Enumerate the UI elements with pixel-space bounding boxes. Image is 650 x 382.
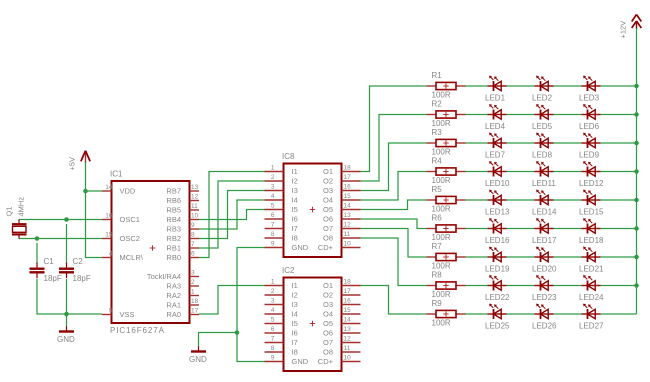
IC8 pin 9 (GND) — [265, 240, 309, 252]
svg-text:RA1: RA1 — [166, 301, 181, 310]
IC2 pin 13 (O6) — [323, 326, 361, 338]
IC8 pin 3 (I3) — [265, 183, 298, 195]
IC2 pin 10 (CD+) — [318, 354, 361, 366]
junction +12V rail row 2 — [634, 112, 639, 117]
svg-text:I7: I7 — [292, 224, 298, 233]
svg-text:O1: O1 — [323, 167, 333, 176]
wire C1 bottom to GND rail — [37, 279, 67, 314]
svg-text:LED11: LED11 — [532, 179, 556, 188]
wire RB0 to IC8 I1 — [199, 172, 265, 258]
junction +12V rail row 4 — [634, 169, 639, 174]
wire down to GND symbol 1 — [66, 314, 68, 327]
svg-text:+12V: +12V — [619, 21, 628, 39]
wire to GND symbol 2 — [199, 333, 238, 348]
svg-text:14: 14 — [344, 202, 352, 209]
svg-text:100R: 100R — [432, 176, 451, 185]
wire LED16 to LED17 — [507, 228, 535, 230]
svg-text:10: 10 — [344, 354, 352, 361]
LED LED8 — [535, 133, 554, 148]
svg-text:16: 16 — [344, 183, 352, 190]
svg-text:LED24: LED24 — [579, 293, 604, 302]
IC2 pin 14 (O5) — [323, 316, 361, 328]
svg-text:MCLR\: MCLR\ — [120, 253, 144, 262]
wire LED25 to LED26 — [507, 313, 535, 315]
svg-text:100R: 100R — [432, 262, 451, 271]
wire IC8 O7 to R7 — [361, 229, 427, 258]
LED LED21 — [582, 247, 601, 262]
svg-text:C2: C2 — [73, 257, 84, 266]
wire R8 to LED22 — [466, 285, 488, 287]
wire C2 bottom to GND rail — [66, 279, 68, 314]
svg-text:5: 5 — [271, 202, 275, 209]
svg-text:LED10: LED10 — [485, 179, 510, 188]
svg-text:LED16: LED16 — [485, 236, 510, 245]
svg-text:14: 14 — [105, 184, 113, 191]
capacitor C1 18pF — [30, 263, 45, 279]
svg-text:R5: R5 — [432, 185, 443, 194]
wire IC8 O1 to R1 — [361, 86, 427, 172]
svg-text:I1: I1 — [292, 167, 298, 176]
resistor R9 100R — [427, 310, 466, 317]
svg-text:O6: O6 — [323, 329, 333, 338]
IC IC2 body — [284, 278, 342, 372]
IC2 pin 5 (I5) — [265, 316, 298, 328]
IC1 pin 7 (RB1) — [166, 241, 199, 253]
IC8 pin 5 (I5) — [265, 202, 298, 214]
wire C1 top lead to OSC2 net — [36, 243, 38, 264]
svg-text:LED1: LED1 — [485, 94, 506, 103]
IC IC1 body — [112, 181, 190, 323]
wire LED13 to LED14 — [507, 199, 535, 201]
svg-text:3: 3 — [271, 183, 275, 190]
svg-text:RB0: RB0 — [166, 253, 181, 262]
svg-text:17: 17 — [344, 288, 352, 295]
IC8 pin 8 (I8) — [265, 231, 298, 243]
junction OSC1/C2 — [64, 217, 69, 222]
svg-text:9: 9 — [191, 222, 195, 229]
svg-text:OSC1: OSC1 — [120, 215, 140, 224]
IC2 pin 2 (I2) — [265, 288, 298, 300]
svg-text:O8: O8 — [323, 348, 333, 357]
wire LED17 to LED18 — [554, 228, 582, 230]
wire R9 to LED25 — [466, 313, 488, 315]
svg-text:I6: I6 — [292, 215, 298, 224]
svg-text:3: 3 — [191, 270, 195, 277]
svg-text:LED18: LED18 — [579, 236, 604, 245]
svg-text:14: 14 — [344, 316, 352, 323]
wire LED12 to +12V rail — [601, 171, 637, 173]
svg-text:TockI/RA4: TockI/RA4 — [147, 272, 181, 281]
svg-text:LED26: LED26 — [532, 322, 557, 331]
LED LED24 — [582, 275, 601, 290]
svg-text:5: 5 — [271, 316, 275, 323]
IC2 pin 16 (O3) — [323, 297, 361, 309]
svg-text:100R: 100R — [432, 148, 451, 157]
IC8 pin 7 (I7) — [265, 221, 298, 233]
wire LED20 to LED21 — [554, 256, 582, 258]
LED LED22 — [488, 275, 507, 290]
LED LED7 — [488, 133, 507, 148]
svg-text:GND: GND — [292, 357, 309, 366]
svg-text:I6: I6 — [292, 329, 298, 338]
IC2 pin 7 (I7) — [265, 335, 298, 347]
IC1 pin 8 (RB2) — [166, 232, 199, 244]
IC8 pin 13 (O6) — [323, 212, 361, 224]
svg-text:18: 18 — [344, 164, 352, 171]
wire R7 to LED19 — [466, 256, 488, 258]
IC1 pin 10 (RB4) — [166, 213, 199, 225]
svg-text:7: 7 — [191, 241, 195, 248]
resistor R5 100R — [427, 196, 466, 203]
wire LED10 to LED11 — [507, 171, 535, 173]
svg-text:LED27: LED27 — [579, 322, 604, 331]
wire IC8 GND to IC2 GND — [237, 248, 265, 362]
svg-text:7: 7 — [271, 221, 275, 228]
svg-text:RB5: RB5 — [166, 206, 181, 215]
svg-text:16: 16 — [105, 213, 113, 220]
LED LED15 — [582, 190, 601, 205]
svg-text:R1: R1 — [432, 71, 443, 80]
svg-text:R6: R6 — [432, 214, 443, 223]
svg-text:IC2: IC2 — [282, 266, 295, 275]
IC1 pin 6 (RB0) — [166, 251, 199, 263]
svg-text:CD+: CD+ — [318, 357, 334, 366]
svg-text:4: 4 — [109, 251, 113, 258]
IC1 pin 3 (TockI/RA4) — [147, 270, 199, 282]
svg-text:O6: O6 — [323, 215, 333, 224]
svg-text:I2: I2 — [292, 177, 298, 186]
svg-text:13: 13 — [344, 326, 352, 333]
svg-text:LED9: LED9 — [579, 151, 600, 160]
wire IC8 O5 to R5 — [361, 200, 427, 210]
svg-text:12: 12 — [344, 335, 352, 342]
wire LED3 to +12V rail — [601, 85, 637, 87]
LED LED23 — [535, 275, 554, 290]
svg-text:2: 2 — [271, 174, 275, 181]
IC1 pin 12 (RB6) — [166, 194, 199, 206]
LED LED18 — [582, 218, 601, 233]
wire IC8 O8 to R8 — [361, 238, 427, 286]
resistor R2 100R — [427, 111, 466, 118]
origin mark IC2 — [310, 321, 315, 326]
resistor R3 100R — [427, 139, 466, 146]
IC2 pin 11 (O8) — [323, 345, 361, 357]
IC2 pin 9 (GND) — [265, 354, 309, 366]
IC IC8 body — [284, 164, 342, 258]
svg-text:CD+: CD+ — [318, 243, 334, 252]
IC1 pin 5 (VSS) — [102, 308, 135, 320]
junction +12V rail row 7 — [634, 255, 639, 260]
svg-text:O8: O8 — [323, 234, 333, 243]
wire LED15 to +12V rail — [601, 199, 637, 201]
svg-text:LED13: LED13 — [485, 208, 510, 217]
svg-text:R7: R7 — [432, 242, 443, 251]
svg-text:6: 6 — [271, 212, 275, 219]
svg-text:18: 18 — [344, 278, 352, 285]
wire IC8 O2 to R2 — [361, 115, 427, 182]
svg-text:18: 18 — [191, 298, 199, 305]
LED LED3 — [582, 76, 601, 91]
LED LED25 — [488, 304, 507, 319]
svg-text:LED14: LED14 — [532, 208, 557, 217]
IC8 pin 11 (O8) — [323, 231, 361, 243]
wire IC8 O6 to R6 — [361, 219, 427, 229]
wire LED1 to LED2 — [507, 85, 535, 87]
wire R6 to LED16 — [466, 228, 488, 230]
wire LED21 to +12V rail — [601, 256, 637, 258]
wire LED4 to LED5 — [507, 114, 535, 116]
IC2 pin 8 (I8) — [265, 345, 298, 357]
svg-text:O3: O3 — [323, 186, 333, 195]
svg-text:LED4: LED4 — [485, 122, 506, 131]
svg-text:13: 13 — [344, 212, 352, 219]
svg-text:OSC2: OSC2 — [120, 234, 140, 243]
svg-text:R3: R3 — [432, 128, 443, 137]
IC8 pin 10 (CD+) — [318, 240, 361, 252]
svg-text:100R: 100R — [432, 319, 451, 328]
IC2 pin 6 (I6) — [265, 326, 298, 338]
svg-text:4: 4 — [271, 193, 275, 200]
svg-text:LED21: LED21 — [579, 265, 604, 274]
wire OSC2 net: crystal bottom to IC1 pin 15 — [19, 238, 102, 240]
IC8 pin 1 (I1) — [265, 164, 298, 176]
svg-text:LED5: LED5 — [532, 122, 553, 131]
IC8 pin 6 (I6) — [265, 212, 298, 224]
svg-text:6: 6 — [191, 251, 195, 258]
svg-text:O2: O2 — [323, 291, 333, 300]
svg-text:1: 1 — [271, 164, 275, 171]
svg-text:O4: O4 — [323, 196, 333, 205]
ground GND1 — [59, 327, 74, 332]
origin mark IC8 — [310, 207, 315, 212]
svg-text:11: 11 — [344, 231, 351, 238]
IC1 pin 18 (RA1) — [166, 298, 199, 310]
svg-text:C1: C1 — [44, 257, 55, 266]
junction +5V/VDD node — [83, 189, 88, 194]
svg-text:100R: 100R — [432, 290, 451, 299]
supply +12V symbol P+12V — [632, 15, 642, 30]
svg-text:LED17: LED17 — [532, 236, 557, 245]
IC1 pin 16 (OSC1) — [102, 213, 140, 225]
svg-text:LED8: LED8 — [532, 151, 553, 160]
svg-text:I5: I5 — [292, 205, 298, 214]
IC8 pin 18 (O1) — [323, 164, 361, 176]
svg-text:LED7: LED7 — [485, 151, 506, 160]
svg-text:RB1: RB1 — [166, 244, 181, 253]
resistor R6 100R — [427, 225, 466, 232]
svg-text:15: 15 — [344, 307, 352, 314]
svg-text:10: 10 — [344, 240, 352, 247]
IC8 pin 4 (I4) — [265, 193, 298, 205]
svg-text:LED20: LED20 — [532, 265, 557, 274]
wire RB3 to IC8 I4 — [199, 200, 265, 229]
wire LED7 to LED8 — [507, 142, 535, 144]
IC2 pin 18 (O1) — [323, 278, 361, 290]
svg-text:GND: GND — [292, 243, 309, 252]
wire LED23 to LED24 — [554, 285, 582, 287]
wire RA0 to IC2 I1 — [199, 286, 265, 315]
svg-text:O7: O7 — [323, 338, 333, 347]
svg-text:8: 8 — [191, 232, 195, 239]
junction +12V rail row 3 — [634, 141, 639, 146]
svg-text:R8: R8 — [432, 271, 443, 280]
resistor R8 100R — [427, 282, 466, 289]
IC8 pin 16 (O3) — [323, 183, 361, 195]
wire +5V rail down to VDD node — [85, 162, 87, 191]
svg-text:8: 8 — [271, 231, 275, 238]
svg-text:O5: O5 — [323, 205, 333, 214]
junction +12V rail row 5 — [634, 198, 639, 203]
wire R3 to LED7 — [466, 142, 488, 144]
svg-text:4: 4 — [271, 307, 275, 314]
LED LED2 — [535, 76, 554, 91]
svg-text:2: 2 — [271, 288, 275, 295]
svg-text:R2: R2 — [432, 100, 443, 109]
supply +5V symbol P+5V — [81, 151, 90, 163]
resistor R7 100R — [427, 253, 466, 260]
resistor R1 100R — [427, 82, 466, 89]
wire LED18 to +12V rail — [601, 228, 637, 230]
wire LED9 to +12V rail — [601, 142, 637, 144]
wire GND rail to IC1 VSS pin 5 — [67, 313, 103, 315]
IC1 pin 15 (OSC2) — [102, 232, 140, 244]
svg-text:LED12: LED12 — [579, 179, 604, 188]
svg-text:6: 6 — [271, 326, 275, 333]
svg-text:I3: I3 — [292, 300, 298, 309]
svg-text:100R: 100R — [432, 233, 451, 242]
svg-text:I4: I4 — [292, 310, 298, 319]
LED LED10 — [488, 161, 507, 176]
svg-text:LED2: LED2 — [532, 94, 553, 103]
origin mark IC1 — [150, 245, 155, 250]
LED LED19 — [488, 247, 507, 262]
IC1 pin 11 (RB5) — [166, 203, 199, 215]
LED LED16 — [488, 218, 507, 233]
svg-text:9: 9 — [271, 354, 275, 361]
svg-text:100R: 100R — [432, 119, 451, 128]
svg-text:11: 11 — [191, 203, 198, 210]
svg-text:IC8: IC8 — [282, 152, 295, 161]
junction GND rail / C2 / GND symbol — [64, 312, 69, 317]
LED LED14 — [535, 190, 554, 205]
svg-text:100R: 100R — [432, 205, 451, 214]
IC2 pin 15 (O4) — [323, 307, 361, 319]
IC1 pin 13 (RB7) — [166, 184, 199, 196]
wire R1 to LED1 — [466, 85, 488, 87]
wire IC2 O1 to R9 — [361, 286, 427, 315]
wire LED19 to LED20 — [507, 256, 535, 258]
svg-text:4MHz: 4MHz — [17, 197, 26, 217]
svg-text:12: 12 — [191, 194, 199, 201]
IC2 pin 17 (O2) — [323, 288, 361, 300]
IC1 pin 2 (RA3) — [166, 279, 199, 291]
LED LED9 — [582, 133, 601, 148]
svg-text:RB2: RB2 — [166, 234, 181, 243]
IC8 pin 12 (O7) — [323, 221, 361, 233]
junction +12V rail row 6 — [634, 226, 639, 231]
svg-text:RB7: RB7 — [166, 187, 181, 196]
IC1 pin 1 (RA2) — [166, 289, 199, 301]
IC8 pin 15 (O4) — [323, 193, 361, 205]
LED LED4 — [488, 104, 507, 119]
IC8 pin 17 (O2) — [323, 174, 361, 186]
svg-text:O7: O7 — [323, 224, 333, 233]
svg-text:VSS: VSS — [120, 310, 135, 319]
wire +5V to IC1 MCLR pin 4 — [86, 191, 103, 258]
svg-text:I8: I8 — [292, 348, 298, 357]
LED LED5 — [535, 104, 554, 119]
svg-text:I8: I8 — [292, 234, 298, 243]
IC2 pin 1 (I1) — [265, 278, 298, 290]
svg-text:RB4: RB4 — [166, 215, 181, 224]
crystal Q1 4MHz — [12, 220, 27, 239]
svg-text:O5: O5 — [323, 319, 333, 328]
svg-text:11: 11 — [344, 345, 351, 352]
svg-text:GND: GND — [189, 355, 207, 364]
junction +12V rail row 8 — [634, 283, 639, 288]
svg-text:I1: I1 — [292, 281, 298, 290]
svg-text:IC1: IC1 — [110, 170, 123, 179]
LED LED26 — [535, 304, 554, 319]
LED LED27 — [582, 304, 601, 319]
svg-text:8: 8 — [271, 345, 275, 352]
svg-text:RA0: RA0 — [166, 310, 181, 319]
svg-text:18pF: 18pF — [44, 274, 62, 283]
svg-text:15: 15 — [344, 193, 352, 200]
junction OSC2/C1 — [35, 236, 40, 241]
svg-text:O3: O3 — [323, 300, 333, 309]
IC1 pin 9 (RB3) — [166, 222, 199, 234]
IC2 pin 3 (I3) — [265, 297, 298, 309]
svg-text:O4: O4 — [323, 310, 333, 319]
IC8 pin 14 (O5) — [323, 202, 361, 214]
wire R2 to LED4 — [466, 114, 488, 116]
resistor R4 100R — [427, 168, 466, 175]
svg-text:9: 9 — [271, 240, 275, 247]
svg-text:15: 15 — [105, 232, 113, 239]
svg-text:LED15: LED15 — [579, 208, 604, 217]
svg-text:I4: I4 — [292, 196, 298, 205]
svg-text:LED25: LED25 — [485, 322, 510, 331]
IC2 pin 4 (I4) — [265, 307, 298, 319]
wire LED27 to +12V rail — [601, 313, 637, 315]
wire LED26 to LED27 — [554, 313, 582, 315]
svg-text:LED3: LED3 — [579, 94, 600, 103]
LED LED20 — [535, 247, 554, 262]
LED LED17 — [535, 218, 554, 233]
wire OSC1 net: crystal top to IC1 pin 16 — [19, 219, 102, 221]
IC2 pin 12 (O7) — [323, 335, 361, 347]
svg-text:2: 2 — [191, 279, 195, 286]
svg-text:I5: I5 — [292, 319, 298, 328]
svg-text:RB3: RB3 — [166, 225, 181, 234]
wire IC8 O4 to R4 — [361, 172, 427, 201]
wire R4 to LED10 — [466, 171, 488, 173]
svg-text:7: 7 — [271, 335, 275, 342]
svg-text:12: 12 — [344, 221, 352, 228]
svg-text:LED19: LED19 — [485, 265, 510, 274]
svg-text:R4: R4 — [432, 157, 443, 166]
svg-text:R9: R9 — [432, 299, 443, 308]
wire LED22 to LED23 — [507, 285, 535, 287]
wire LED8 to LED9 — [554, 142, 582, 144]
svg-text:5: 5 — [109, 308, 113, 315]
LED LED11 — [535, 161, 554, 176]
IC8 pin 2 (I2) — [265, 174, 298, 186]
wire R5 to LED13 — [466, 199, 488, 201]
LED LED1 — [488, 76, 507, 91]
wire RB4 to IC8 I5 — [199, 210, 265, 220]
